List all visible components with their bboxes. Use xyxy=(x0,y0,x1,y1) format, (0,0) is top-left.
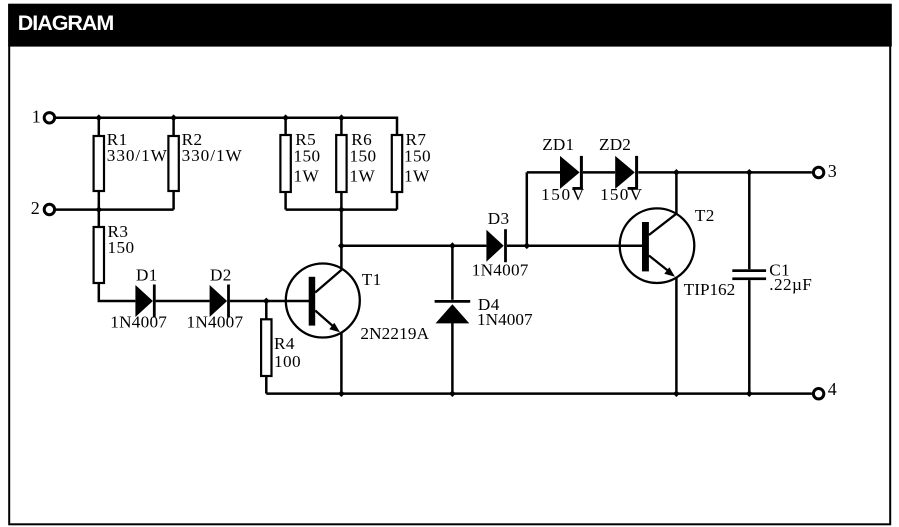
svg-text:1N4007: 1N4007 xyxy=(477,310,533,329)
label R1 330/1W xyxy=(107,130,168,165)
junction D2 R4 xyxy=(263,298,270,305)
svg-text:R4: R4 xyxy=(274,334,295,353)
svg-text:1: 1 xyxy=(32,106,41,126)
junction at R1 top xyxy=(95,114,102,121)
resistor R1 xyxy=(94,136,104,191)
wire R5 bottom lead xyxy=(284,192,287,210)
svg-text:150: 150 xyxy=(294,146,321,165)
node 1 terminal xyxy=(44,113,54,123)
junction zener rail C1 xyxy=(746,169,753,176)
wire up from mid rail to zener rail xyxy=(526,172,529,245)
junction mid rail D4 xyxy=(449,242,456,249)
wire T2 emitter lead down xyxy=(675,277,678,393)
svg-text:150V: 150V xyxy=(541,185,585,204)
wire T1 collector vertical xyxy=(340,246,343,269)
junction at R6 top xyxy=(338,114,345,121)
svg-text:D3: D3 xyxy=(488,209,510,228)
node 3 terminal xyxy=(813,167,823,177)
svg-text:DIAGRAM: DIAGRAM xyxy=(18,11,115,35)
junction at R5 top xyxy=(282,114,289,121)
wire T1 emitter vertical xyxy=(340,332,343,393)
wire R2 bottom lead xyxy=(172,191,175,210)
zener diode ZD2 xyxy=(615,156,638,190)
diode D3 xyxy=(486,229,505,262)
wire C1 top lead xyxy=(748,172,751,269)
wire R2 top lead xyxy=(172,118,175,136)
junction at R6 bottom rail xyxy=(338,206,345,213)
svg-text:3: 3 xyxy=(828,161,837,181)
wire R3 top lead xyxy=(98,210,101,227)
svg-text:150: 150 xyxy=(108,238,135,257)
svg-text:1N4007: 1N4007 xyxy=(472,261,529,280)
resistor R2 xyxy=(168,136,178,191)
node 4 terminal xyxy=(813,389,823,399)
capacitor C1 xyxy=(732,269,766,280)
resistor R4 xyxy=(261,319,271,376)
resistor R6 xyxy=(336,135,346,192)
wire zener rail to ZD1 xyxy=(527,171,560,174)
wire rail node 2 to R2 xyxy=(56,208,174,211)
junction bottom rail T2 emitter xyxy=(673,390,680,397)
svg-text:330/1W: 330/1W xyxy=(182,146,243,165)
transistor T2 xyxy=(620,208,695,283)
svg-text:T1: T1 xyxy=(362,270,382,289)
wire D1 to D2 xyxy=(156,300,210,303)
junction bottom rail D4 xyxy=(449,390,456,397)
svg-text:1W: 1W xyxy=(404,166,430,185)
label R3 150 xyxy=(108,222,135,257)
wire R4 top lead xyxy=(265,301,268,319)
svg-text:1N4007: 1N4007 xyxy=(110,313,167,332)
svg-text:ZD2: ZD2 xyxy=(599,135,631,154)
svg-text:.22µF: .22µF xyxy=(769,275,812,294)
wire mid rail to D3 xyxy=(341,244,486,247)
wire T2 collector lead xyxy=(675,172,678,213)
resistor R7 xyxy=(392,135,402,192)
zener diode ZD1 xyxy=(560,156,583,190)
wire D2 to T1 base xyxy=(230,300,309,303)
wire D3 to T2 base xyxy=(507,244,642,247)
wire R6 top lead xyxy=(340,118,343,135)
junction bottom rail T1 emitter xyxy=(338,390,345,397)
wire ZD1 to ZD2 xyxy=(583,171,615,174)
diode D2 xyxy=(210,285,229,318)
wire R3 bottom to D1 xyxy=(99,283,136,301)
junction at R2 top xyxy=(170,114,177,121)
svg-text:1W: 1W xyxy=(350,166,376,185)
diode D1 xyxy=(135,285,154,318)
wire R5 top lead xyxy=(284,118,287,135)
wire R7 bottom lead xyxy=(396,192,399,210)
label R5 150 1W xyxy=(294,130,321,186)
svg-text:TIP162: TIP162 xyxy=(684,280,736,299)
wire R4 bottom lead xyxy=(265,376,268,394)
wire rail under R5 R6 R7 xyxy=(286,208,397,211)
svg-text:1W: 1W xyxy=(294,166,320,185)
label R4 100 xyxy=(274,334,301,371)
svg-text:D2: D2 xyxy=(210,265,232,284)
svg-text:150V: 150V xyxy=(600,185,642,204)
svg-text:2N2219A: 2N2219A xyxy=(360,324,429,343)
svg-text:1N4007: 1N4007 xyxy=(187,313,244,332)
label R2 330/1W xyxy=(182,130,243,165)
wire ZD2 to node 3 xyxy=(638,171,812,174)
wire R1 top lead xyxy=(98,118,101,136)
wire down from R6 rail to mid rail xyxy=(340,210,343,246)
svg-text:100: 100 xyxy=(274,352,301,371)
label C1 .22uF xyxy=(769,261,812,294)
wire top rail from node 1 to R7 xyxy=(56,118,397,135)
wire C1 bottom lead xyxy=(748,280,751,394)
wire R6 bottom lead xyxy=(340,192,343,210)
junction at R1 bottom R3 xyxy=(95,206,102,213)
node 2 terminal xyxy=(44,204,54,214)
wire bottom rail to node 4 xyxy=(266,392,812,395)
wire R1 bottom lead xyxy=(98,191,101,210)
svg-text:4: 4 xyxy=(828,379,837,399)
junction zener rail T2 collector xyxy=(673,169,680,176)
wire D4 top lead xyxy=(451,246,454,300)
junction mid rail zener branch xyxy=(523,242,530,249)
label R6 150 1W xyxy=(350,130,377,186)
junction bottom rail C1 xyxy=(746,390,753,397)
svg-text:330/1W: 330/1W xyxy=(107,146,168,165)
svg-text:150: 150 xyxy=(404,146,431,165)
svg-text:150: 150 xyxy=(350,146,377,165)
svg-text:2: 2 xyxy=(31,198,40,218)
diode D4 vertical xyxy=(435,301,471,323)
resistor R3 xyxy=(94,227,104,283)
resistor R5 xyxy=(280,135,290,192)
transistor T1 xyxy=(286,264,360,338)
svg-text:D1: D1 xyxy=(136,265,158,284)
svg-text:T2: T2 xyxy=(695,206,715,225)
wire D4 bottom lead xyxy=(451,323,454,394)
svg-text:ZD1: ZD1 xyxy=(542,135,574,154)
junction mid rail T1 collector xyxy=(338,242,345,249)
label R7 150 1W xyxy=(404,130,431,186)
